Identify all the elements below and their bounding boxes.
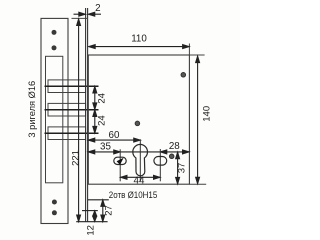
dim 221 line bbox=[77, 19, 81, 222]
svg-text:44: 44 bbox=[134, 175, 145, 186]
svg-text:37: 37 bbox=[176, 163, 187, 174]
dim 140 line bbox=[196, 56, 200, 184]
svg-text:60: 60 bbox=[109, 130, 120, 141]
cylinder vertical centerline bbox=[139, 139, 141, 181]
body bottom edge extension right bbox=[189, 183, 206, 185]
bolt 2 centerline bbox=[45, 109, 99, 111]
svg-text:27: 27 bbox=[103, 205, 114, 216]
leader shelf for 2 holes note bbox=[88, 199, 109, 201]
bolt 1 centerline bbox=[45, 85, 99, 87]
left hole centerline bbox=[119, 149, 121, 181]
svg-text:140: 140 bbox=[202, 106, 213, 122]
screw dot near right hole bbox=[169, 154, 174, 159]
euro cylinder profile hole bbox=[133, 144, 148, 176]
screw hole top 2 bbox=[52, 45, 57, 50]
left hole Ø10 (oval) bbox=[114, 157, 126, 164]
screw hole bottom 2 bbox=[52, 210, 57, 215]
screw dot in body middle bbox=[135, 121, 140, 126]
screw hole top 1 bbox=[52, 30, 57, 35]
right hole Ø10 (oval) bbox=[154, 157, 167, 166]
leader arrowhead in left hole bbox=[117, 158, 124, 165]
svg-text:221: 221 bbox=[71, 150, 82, 166]
bolt 2 rect bbox=[48, 103, 86, 116]
dim 27 line bbox=[101, 200, 105, 222]
faceplate top edge extension to plate bbox=[72, 17, 89, 19]
faceplate edge view line right bbox=[87, 8, 89, 221]
body right edge extension up bbox=[188, 44, 190, 56]
bolt 3 centerline bbox=[45, 132, 99, 134]
dim 37 line bbox=[176, 152, 180, 184]
dim 12 extension line bbox=[82, 210, 98, 212]
right hole centerline bbox=[159, 149, 161, 181]
dim 110 line bbox=[89, 45, 190, 49]
faceplate front view inner rect bbox=[46, 56, 63, 183]
lock body rect bbox=[88, 55, 189, 184]
dim 2 right arrow bbox=[88, 12, 101, 16]
svg-text:24: 24 bbox=[97, 115, 108, 126]
svg-text:12: 12 bbox=[86, 225, 97, 236]
dim 44 line bbox=[120, 175, 160, 179]
svg-text:24: 24 bbox=[97, 93, 108, 104]
svg-text:3 ригеля Ø16: 3 ригеля Ø16 bbox=[27, 81, 37, 138]
svg-text:2: 2 bbox=[95, 3, 100, 14]
faceplate front view outer rect bbox=[41, 18, 68, 223]
bottom extension line bbox=[76, 221, 107, 223]
dim 24 line with two spans bbox=[93, 86, 97, 133]
bolt 3 rect bbox=[48, 127, 86, 140]
dim 2 left arrow bbox=[74, 12, 86, 16]
cylinder axis horizontal line with 35/28 arrows bbox=[88, 150, 189, 154]
svg-text:28: 28 bbox=[169, 141, 180, 152]
dim 60 line bbox=[88, 138, 140, 142]
svg-text:110: 110 bbox=[131, 34, 147, 45]
svg-text:2отв Ø10H15: 2отв Ø10H15 bbox=[109, 190, 158, 200]
body top edge extension right bbox=[189, 54, 204, 56]
screw dot in body upper right bbox=[181, 73, 186, 78]
screw hole bottom 1 bbox=[52, 200, 57, 205]
dim 12 arrows bbox=[93, 211, 97, 222]
faceplate edge view line left bbox=[85, 8, 87, 221]
bolt 1 rect bbox=[48, 80, 86, 93]
svg-text:35: 35 bbox=[100, 141, 111, 152]
